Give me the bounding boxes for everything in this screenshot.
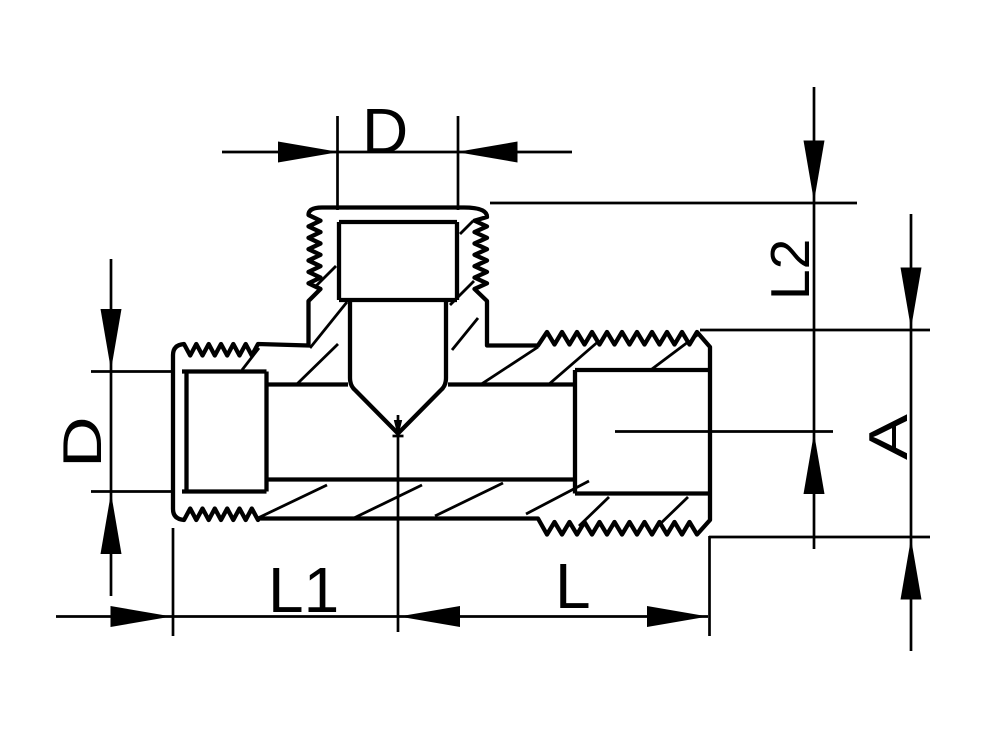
svg-text:L1: L1 xyxy=(268,554,339,626)
svg-text:A: A xyxy=(858,414,919,460)
svg-text:D: D xyxy=(362,95,408,167)
svg-text:L2: L2 xyxy=(759,239,821,300)
svg-text:D: D xyxy=(51,416,113,468)
svg-text:L: L xyxy=(555,550,591,622)
